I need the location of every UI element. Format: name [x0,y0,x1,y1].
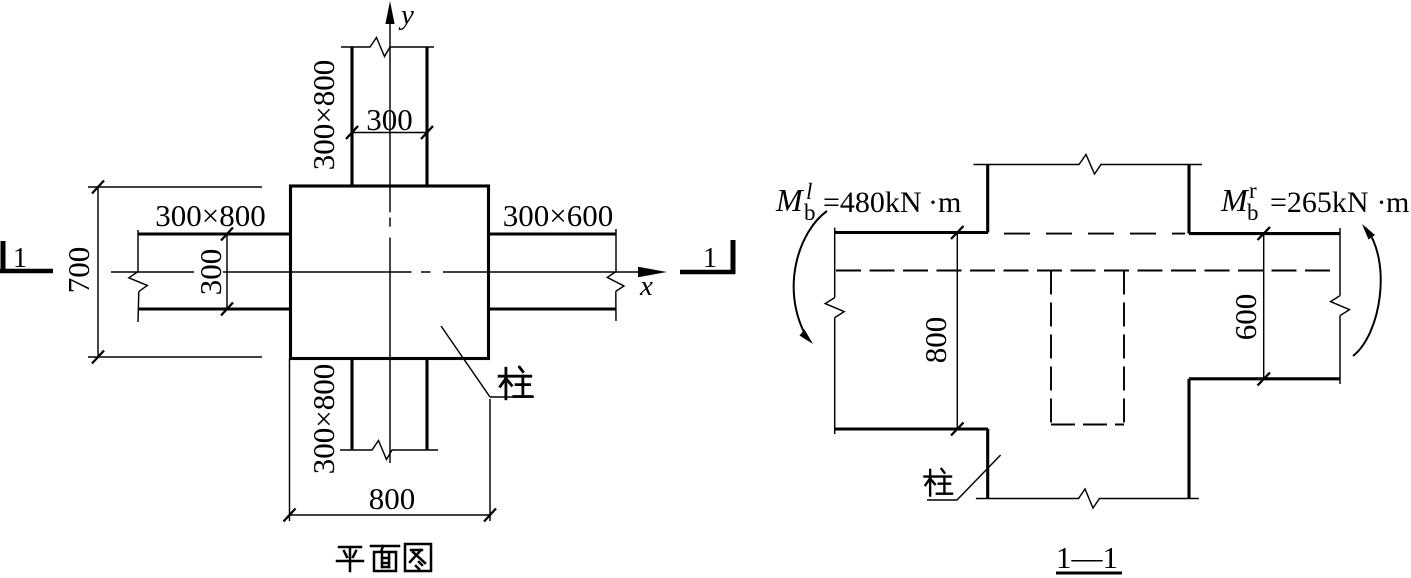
svg-text:1: 1 [13,243,27,274]
svg-text:300: 300 [366,102,413,137]
svg-text:800: 800 [369,481,416,516]
svg-text:·: · [928,186,938,219]
svg-text:=480kN: =480kN [823,186,922,219]
svg-text:1—1: 1—1 [1056,540,1118,575]
svg-text:1: 1 [703,243,717,274]
svg-text:700: 700 [61,247,96,294]
svg-text:m: m [1386,186,1409,219]
svg-text:x: x [639,270,653,302]
svg-text:M: M [1220,182,1250,218]
svg-text:300×800: 300×800 [306,60,341,170]
svg-text:300×800: 300×800 [155,198,265,233]
svg-text:y: y [398,0,414,31]
svg-text:b: b [1247,200,1259,225]
svg-text:300: 300 [193,249,228,296]
svg-text:·: · [1377,186,1387,219]
svg-text:300×600: 300×600 [503,198,613,233]
svg-text:b: b [804,200,816,225]
svg-text:m: m [938,186,961,219]
svg-text:300×800: 300×800 [306,364,341,474]
svg-text:600: 600 [1228,294,1263,341]
svg-text:M: M [775,182,805,218]
svg-text:800: 800 [918,317,953,364]
svg-text:=265kN: =265kN [1270,186,1369,219]
